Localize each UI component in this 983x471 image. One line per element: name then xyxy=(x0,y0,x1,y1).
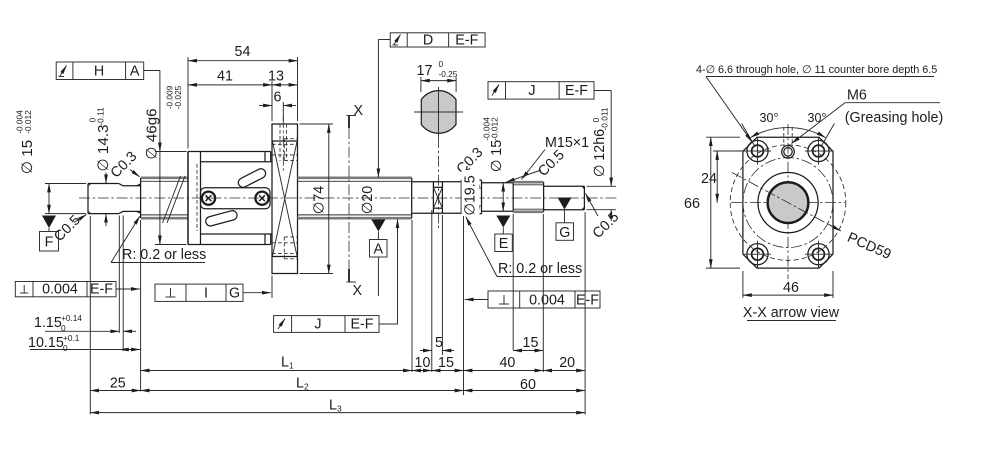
svg-text:H: H xyxy=(94,64,104,80)
svg-text:-0.011: -0.011 xyxy=(600,107,610,130)
svg-text:J: J xyxy=(314,317,321,333)
svg-text:15: 15 xyxy=(438,355,454,371)
svg-text:∅ 15: ∅ 15 xyxy=(19,140,36,174)
svg-text:F: F xyxy=(45,235,54,251)
svg-text:E: E xyxy=(499,236,509,252)
svg-text:E-F: E-F xyxy=(455,32,478,48)
svg-text:(Greasing hole): (Greasing hole) xyxy=(845,110,944,126)
svg-text:∅20: ∅20 xyxy=(360,186,376,214)
svg-text:A: A xyxy=(374,242,384,258)
svg-text:6: 6 xyxy=(274,90,282,106)
svg-text:∅ 12h6: ∅ 12h6 xyxy=(592,129,608,177)
svg-text:M15×1: M15×1 xyxy=(545,135,589,151)
svg-text:-0.25: -0.25 xyxy=(439,69,458,79)
svg-text:∅ 14.3: ∅ 14.3 xyxy=(95,124,112,171)
svg-text:4-∅ 6.6 through hole, ∅ 11 cou: 4-∅ 6.6 through hole, ∅ 11 counter bore … xyxy=(696,64,937,76)
svg-text:D: D xyxy=(423,32,433,48)
svg-text:30°: 30° xyxy=(760,111,779,125)
svg-text:M6: M6 xyxy=(847,88,867,104)
svg-text:E-F: E-F xyxy=(565,83,588,99)
svg-text:∅ 15: ∅ 15 xyxy=(489,140,505,172)
svg-text:J: J xyxy=(528,83,535,99)
svg-text:A: A xyxy=(130,64,140,80)
svg-text:24: 24 xyxy=(701,171,717,187)
svg-text:+0.14: +0.14 xyxy=(61,313,82,323)
svg-text:15: 15 xyxy=(523,335,539,351)
svg-text:10: 10 xyxy=(415,355,431,371)
svg-text:20: 20 xyxy=(559,355,575,371)
svg-text:-0.012: -0.012 xyxy=(23,110,33,134)
svg-text:X-X arrow view: X-X arrow view xyxy=(743,305,840,321)
svg-text:∅74: ∅74 xyxy=(312,186,328,214)
svg-text:0.004: 0.004 xyxy=(42,282,78,298)
svg-text:5: 5 xyxy=(435,335,443,351)
svg-text:0: 0 xyxy=(63,343,68,353)
svg-text:30°: 30° xyxy=(808,111,827,125)
svg-text:E-F: E-F xyxy=(350,317,373,333)
svg-text:L: L xyxy=(281,355,289,371)
svg-text:∅19.5: ∅19.5 xyxy=(463,175,479,215)
svg-text:X: X xyxy=(353,283,363,299)
svg-text:2: 2 xyxy=(304,382,309,392)
svg-text:R: 0.2 or less: R: 0.2 or less xyxy=(498,261,582,277)
svg-text:E-F: E-F xyxy=(90,282,113,298)
svg-text:E-F: E-F xyxy=(576,293,599,309)
svg-text:L: L xyxy=(329,398,337,414)
svg-text:R: 0.2 or less: R: 0.2 or less xyxy=(122,247,206,263)
svg-text:17: 17 xyxy=(417,63,433,79)
svg-text:G: G xyxy=(559,225,570,241)
svg-text:13: 13 xyxy=(268,69,284,85)
svg-text:25: 25 xyxy=(110,376,126,392)
svg-text:1: 1 xyxy=(289,361,294,371)
svg-text:3: 3 xyxy=(337,404,342,414)
svg-text:-0.012: -0.012 xyxy=(490,117,500,141)
svg-text:41: 41 xyxy=(217,69,233,85)
svg-text:L: L xyxy=(296,376,304,392)
svg-text:1.15: 1.15 xyxy=(34,315,62,331)
svg-text:40: 40 xyxy=(499,355,515,371)
svg-text:-0.025: -0.025 xyxy=(173,85,183,109)
svg-text:66: 66 xyxy=(684,196,700,212)
svg-text:+0.1: +0.1 xyxy=(63,333,80,343)
svg-text:-0.11: -0.11 xyxy=(96,107,106,126)
svg-text:0.004: 0.004 xyxy=(529,293,565,309)
svg-text:∅ 46g6: ∅ 46g6 xyxy=(144,108,161,159)
svg-text:46: 46 xyxy=(783,280,799,296)
svg-text:54: 54 xyxy=(235,44,251,60)
svg-text:0: 0 xyxy=(439,59,444,69)
svg-text:10.15: 10.15 xyxy=(28,335,64,351)
svg-text:I: I xyxy=(204,286,208,302)
svg-text:X: X xyxy=(354,103,364,119)
svg-text:G: G xyxy=(229,286,240,302)
